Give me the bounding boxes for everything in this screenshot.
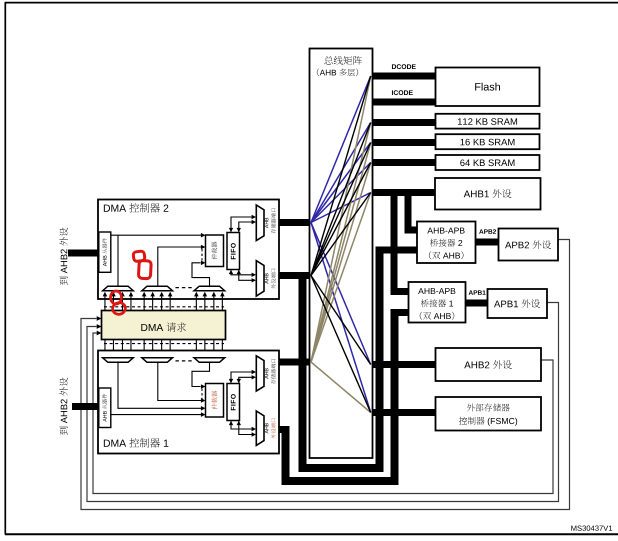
DMA1 FIFO box <box>227 384 240 421</box>
bus: DMA1 peripheral port left leg (vertical) <box>282 426 290 485</box>
DMA2 wire: AHB slave to arbiter <box>111 234 203 236</box>
bus: to 112KB SRAM <box>371 119 436 126</box>
bus: to FSMC <box>371 409 436 416</box>
DMA request box <box>102 311 226 340</box>
red scribble annotation (inside DMA2) <box>133 251 145 262</box>
DMA1 AHB peripheral port mux <box>256 411 264 445</box>
crossbar lines from DMA2 memory port (blue) <box>311 76 371 413</box>
DMA2 AHB slave box <box>99 232 111 272</box>
DMA2 FIFO box <box>227 233 240 270</box>
DMA2 wire: stream mux 3 to arbiter <box>192 263 210 287</box>
DMA2 wire: FIFO to memory port <box>231 217 253 232</box>
112 KB SRAM box <box>436 114 540 129</box>
bus: DMA1 peripheral port stub <box>278 426 290 433</box>
DMA1 wire: AHB slave to arbiter <box>111 414 203 416</box>
label APB1 <box>469 290 473 294</box>
DMA1 AHB memory port mux <box>256 356 264 391</box>
AHB-APB bridge 2 box <box>417 222 476 264</box>
DMA2 wire: FIFO to peripheral port <box>231 270 253 275</box>
DMA2 AHB peripheral port mux <box>256 261 264 296</box>
DMA controller 2 box <box>98 200 279 300</box>
bus: to AHB1 peripherals <box>371 189 436 196</box>
crossbar lines from DMA1 memory port (tan) <box>311 76 371 413</box>
APB2 peripherals box <box>499 229 559 261</box>
bus: DMA1 peripheral port riser (vertical) <box>391 309 399 485</box>
DMA1 arbiter box <box>206 384 224 418</box>
figure reference MS30437V1 <box>571 526 576 531</box>
bus: bridge 1 to APB1 peripherals <box>466 300 488 307</box>
label DCODE <box>392 64 396 69</box>
APB1 peripherals box <box>488 289 548 318</box>
wire: APB1 peripherals request feedback <box>87 303 559 502</box>
bus: bridge 2 lower port <box>376 247 418 254</box>
bus: AHB1 branch down to AHB-APB bridge 1 (vertical) <box>391 192 398 295</box>
bus: DMA2 peripheral port to bus matrix <box>278 272 311 279</box>
DMA1 wire: stream mux 1 to arbiter <box>118 363 203 409</box>
bus: ICODE (bus matrix to Flash) <box>371 99 436 106</box>
dashes between DMA2 stream muxes <box>176 287 194 289</box>
AHB1 peripherals box <box>435 178 541 210</box>
bus: bridge 1 lower port <box>391 309 410 316</box>
bus matrix box <box>310 49 373 459</box>
DMA1 wire: stream mux 3 to arbiter <box>192 363 210 387</box>
bus: AHB slave input of DMA1 <box>72 403 99 410</box>
DMA1 wire: FIFO to peripheral port <box>231 421 253 429</box>
bus: into bridge 2 upper port <box>405 227 418 234</box>
bus: DMA2 peripheral port riser (vertical) <box>376 247 384 472</box>
Flash box <box>436 68 540 107</box>
page frame <box>5 2 618 4</box>
DMA2 arbiter box <box>206 235 224 267</box>
bus: DMA1 peripheral port bottom run <box>282 477 399 485</box>
bus: to 64KB SRAM <box>371 159 436 166</box>
bus: to 16KB SRAM <box>371 139 436 146</box>
label APB2 <box>479 229 483 233</box>
16 KB SRAM box <box>436 134 540 149</box>
DMA1 stream muxes (trapezoids) <box>103 358 134 363</box>
bus: to AHB2 peripherals <box>371 361 436 368</box>
DMA1 wire: FIFO to memory port <box>231 372 253 383</box>
DMA1 AHB slave box <box>99 388 111 428</box>
request lines dashes (upper) <box>104 306 224 308</box>
bus: AHB1 branch down to AHB-APB bridge 2 (vertical) <box>405 192 412 234</box>
DMA2 wire: dashed request line <box>201 249 203 261</box>
DMA2 wire: stream mux 2 to arbiter <box>158 247 203 286</box>
bus matrix label <box>324 56 333 65</box>
wire: APB2 peripherals request feedback <box>81 240 570 510</box>
AHB2 peripherals box <box>436 348 542 381</box>
DMA1 wire: stream mux 2 to arbiter <box>158 363 203 401</box>
DMA1 wire: dashed request line <box>201 389 203 400</box>
label ICODE <box>391 90 394 95</box>
bus: DCODE (bus matrix to Flash) <box>371 73 436 80</box>
64 KB SRAM box <box>436 155 540 170</box>
crossbar lines from DMA2 peripheral port (black) <box>311 76 371 413</box>
FSMC box <box>436 397 542 431</box>
request arrows down to DMA1 stream muxes <box>104 340 106 354</box>
bus: AHB slave input of DMA2 <box>68 250 99 257</box>
request lines dashes (lower) <box>104 343 224 345</box>
bus: bridge 2 to APB2 peripherals <box>476 239 499 246</box>
DMA2 wire: stream mux 1 up <box>117 235 119 286</box>
DMA2 stream muxes (trapezoids) <box>103 286 134 291</box>
label: to AHB2 peripherals (upper) <box>59 228 68 285</box>
request arrows up to DMA2 stream muxes <box>104 296 106 311</box>
label: to AHB2 peripherals (lower) <box>59 378 68 435</box>
bus: DMA1 memory port to bus matrix <box>278 359 311 366</box>
AHB-APB bridge 1 box <box>409 282 466 323</box>
wire: AHB2 peripherals request feedback <box>93 333 553 494</box>
DMA controller 1 box <box>98 351 279 454</box>
bus: DMA2 memory port to bus matrix <box>278 219 311 226</box>
bus: into bridge 1 upper port <box>391 288 410 295</box>
bus: DMA2 peripheral port bottom run <box>299 464 384 472</box>
red scribble annotation (at DMA request box) <box>111 291 122 304</box>
dashes between DMA1 stream muxes <box>176 360 194 362</box>
bus: DMA2 peripheral port left leg (vertical) <box>299 272 307 472</box>
DMA2 AHB memory port mux <box>256 205 264 241</box>
